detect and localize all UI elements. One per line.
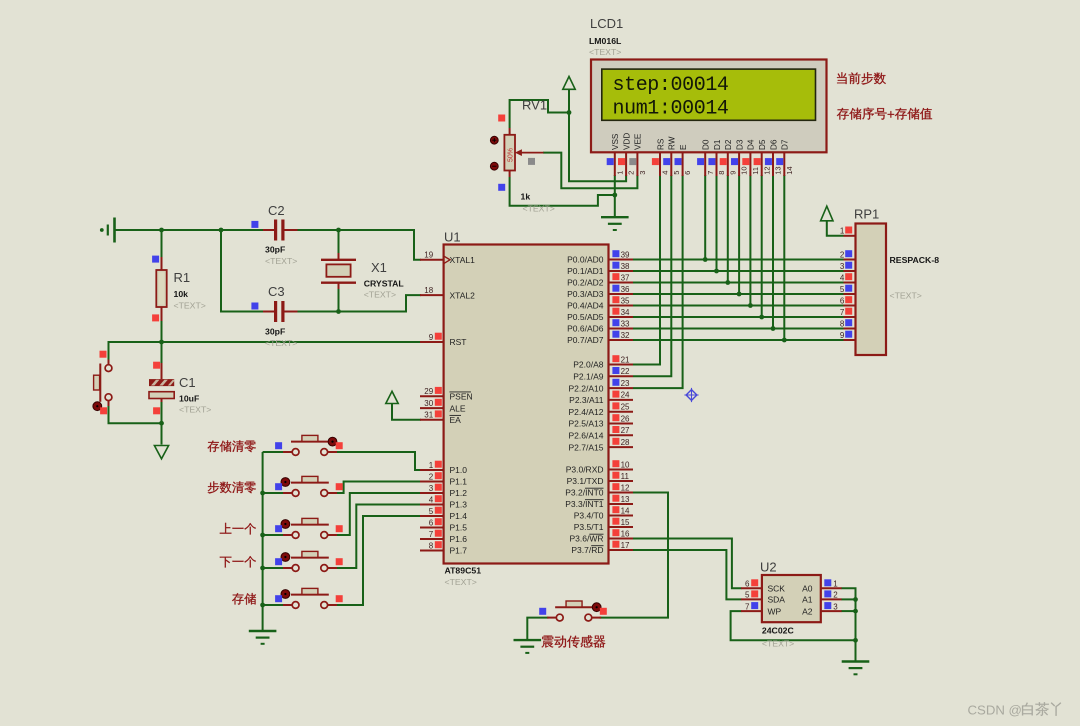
- svg-text:P1.1: P1.1: [450, 477, 468, 487]
- node RST-R1 junction: [159, 340, 164, 345]
- ground below LCD: [601, 217, 629, 230]
- svg-text:X1: X1: [371, 260, 387, 275]
- LCD pin 9 D2: [720, 139, 738, 176]
- svg-text:P0.4/AD4: P0.4/AD4: [567, 301, 604, 311]
- RP1 pin 2: [840, 250, 856, 259]
- U1 pin 21 P2.0/A8: [573, 355, 633, 370]
- svg-text:5: 5: [840, 285, 845, 294]
- svg-text:P0.5/AD5: P0.5/AD5: [567, 312, 604, 322]
- svg-text:A0: A0: [802, 584, 813, 594]
- svg-text:5: 5: [672, 171, 681, 175]
- U1 pin 26 P2.5/A13: [569, 414, 633, 429]
- U2 pin 7 WP: [741, 602, 782, 616]
- svg-text:A1: A1: [802, 595, 813, 605]
- svg-text:7: 7: [745, 602, 750, 611]
- U1 pin 34 P0.5/AD5: [567, 308, 633, 323]
- LCD pin 14 D7: [776, 139, 794, 176]
- wire button3 to P1.2: [337, 493, 421, 535]
- wire EA to power arrow: [392, 404, 421, 420]
- svg-text:P2.3/A11: P2.3/A11: [569, 395, 604, 405]
- svg-text:RW: RW: [668, 136, 677, 150]
- svg-text:P3.0/RXD: P3.0/RXD: [566, 465, 604, 475]
- wire R1 bottom to RST rail: [161, 321, 163, 342]
- svg-text:VDD: VDD: [622, 133, 631, 150]
- node U2 ground junction: [853, 638, 858, 643]
- svg-text:2: 2: [627, 171, 636, 175]
- U1 pin 28 P2.7/A15: [569, 438, 633, 453]
- wire LCD RS to P2.0: [633, 175, 660, 365]
- svg-text:36: 36: [621, 285, 630, 294]
- ground arrow below C1: [154, 446, 168, 459]
- RP1 pin 9: [840, 331, 856, 340]
- wire X1 bottom stub: [338, 289, 340, 312]
- svg-text:25: 25: [621, 403, 630, 412]
- svg-text:C3: C3: [268, 284, 285, 299]
- svg-text:24: 24: [621, 391, 630, 400]
- svg-text:50%: 50%: [508, 148, 515, 162]
- svg-text:VEE: VEE: [634, 133, 643, 150]
- pushbutton store-clear: [275, 435, 343, 455]
- svg-text:RP1: RP1: [854, 207, 879, 222]
- svg-text:22: 22: [621, 367, 630, 376]
- pushbutton next: [275, 551, 343, 571]
- node button bus row5: [260, 603, 265, 608]
- svg-text:1: 1: [429, 461, 434, 470]
- LCD pin 10 D3: [731, 139, 749, 176]
- svg-text:12: 12: [762, 166, 771, 174]
- RP1 pin 6: [840, 296, 856, 305]
- svg-text:8: 8: [429, 541, 434, 550]
- U1 pin 36 P0.3/AD3: [567, 285, 633, 300]
- svg-text:P1.3: P1.3: [450, 500, 468, 510]
- wire LCD D6 to P0.6: [772, 175, 774, 329]
- U1 pin 3 P1.2: [420, 484, 467, 499]
- wire RP1 pin1 to power arrow: [827, 221, 844, 236]
- svg-text:D2: D2: [724, 139, 733, 150]
- wire button bus vertical: [262, 452, 264, 631]
- svg-text:39: 39: [621, 250, 630, 259]
- svg-text:2: 2: [840, 250, 845, 259]
- svg-text:P0.0/AD0: P0.0/AD0: [567, 255, 604, 265]
- svg-text:7: 7: [706, 171, 715, 175]
- wire button1 to P1.0: [337, 452, 421, 470]
- svg-text:23: 23: [621, 379, 630, 388]
- wire VDD power rail vertical: [569, 89, 626, 181]
- svg-text:3: 3: [638, 171, 647, 175]
- U1 pin 31 EA: [420, 410, 461, 425]
- pushbutton reset: [93, 351, 112, 415]
- origin marker: [684, 388, 698, 402]
- U2 pin 6 SCK: [741, 579, 785, 593]
- node D1-P0.1 junction: [714, 269, 719, 274]
- svg-text:30pF: 30pF: [265, 327, 285, 337]
- RP1 pin 5: [840, 285, 856, 294]
- svg-text:<TEXT>: <TEXT>: [762, 639, 794, 649]
- svg-text:P2.0/A8: P2.0/A8: [573, 360, 604, 370]
- svg-text:14: 14: [621, 506, 630, 515]
- svg-text:30: 30: [424, 399, 433, 408]
- svg-text:P1.5: P1.5: [450, 523, 468, 533]
- svg-text:12: 12: [621, 483, 630, 492]
- svg-text:P3.5/T1: P3.5/T1: [574, 522, 604, 532]
- svg-text:7: 7: [429, 530, 434, 539]
- wire LCD E to P2.2: [633, 175, 683, 388]
- svg-text:D0: D0: [702, 139, 711, 150]
- U1 pin 23 P2.2/A10: [569, 379, 633, 394]
- U1 pin 37 P0.2/AD2: [567, 273, 633, 288]
- U1 pin 17 P3.7/RD: [571, 541, 633, 556]
- svg-text:10k: 10k: [174, 289, 189, 299]
- node C3-X1 junction: [336, 309, 341, 314]
- svg-text:R1: R1: [174, 270, 191, 285]
- pushbutton step-clear: [275, 476, 343, 496]
- wire P0.5 bus to RP1: [633, 316, 844, 318]
- wire button4 to P1.3: [337, 505, 421, 569]
- label current-step-count: [837, 72, 886, 84]
- svg-text:14: 14: [785, 166, 794, 174]
- svg-text:XTAL2: XTAL2: [450, 290, 476, 300]
- RP1 pin 1: [840, 227, 856, 236]
- svg-text:2: 2: [833, 591, 838, 600]
- svg-text:13: 13: [774, 166, 783, 174]
- svg-text:3: 3: [840, 262, 845, 271]
- U1 pin 1 P1.0: [420, 461, 467, 476]
- LCD pin 7 D0: [697, 139, 715, 176]
- node D7-P0.7 junction: [782, 338, 787, 343]
- RP1 pin 7: [840, 308, 856, 317]
- svg-text:1k: 1k: [521, 192, 531, 202]
- U1 pin 14 P3.4/T0: [574, 506, 633, 521]
- wire button row feed: [263, 534, 284, 536]
- svg-text:32: 32: [621, 331, 630, 340]
- svg-text:5: 5: [745, 591, 750, 600]
- svg-text:10: 10: [621, 460, 630, 469]
- label store-clear: [207, 440, 255, 452]
- svg-text:5: 5: [429, 507, 434, 516]
- svg-text:P3.2/INT0: P3.2/INT0: [565, 488, 604, 498]
- U2 pin 3 A2: [802, 602, 842, 616]
- svg-text:P2.2/A10: P2.2/A10: [569, 383, 604, 393]
- svg-text:step:00014: step:00014: [613, 74, 729, 97]
- svg-text:19: 19: [424, 251, 433, 260]
- svg-text:<TEXT>: <TEXT>: [445, 577, 477, 587]
- U1 pin 39 P0.0/AD0: [567, 250, 633, 265]
- svg-text:VSS: VSS: [611, 133, 620, 150]
- label vibration-sensor: [541, 635, 605, 648]
- svg-text:8: 8: [840, 319, 845, 328]
- svg-text:<TEXT>: <TEXT>: [179, 405, 211, 415]
- LCD pin 4 RS: [652, 138, 670, 176]
- wire P0.1 bus to RP1: [633, 270, 844, 272]
- wire vibration button to ground: [527, 618, 548, 640]
- U2 pin 2 A1: [802, 590, 842, 604]
- U2 pin 5 SDA: [741, 590, 785, 604]
- U1 pin 29 PSEN: [420, 387, 473, 402]
- wire LCD RW to P2.1: [633, 175, 671, 376]
- svg-text:C1: C1: [179, 375, 196, 390]
- U1 pin 11 P3.1/TXD: [567, 472, 633, 487]
- LCD pin 1 VSS: [607, 133, 625, 176]
- node D0-P0.0 junction: [703, 257, 708, 262]
- svg-text:P1.4: P1.4: [450, 511, 468, 521]
- LCD LCD1 LM016L: [589, 16, 827, 176]
- node D5-P0.5 junction: [759, 315, 764, 320]
- MCU U1 AT89C51: [444, 230, 609, 588]
- U1 pin 35 P0.4/AD4: [567, 296, 633, 311]
- svg-text:6: 6: [745, 580, 750, 589]
- svg-text:1: 1: [840, 227, 845, 236]
- LCD screen: [602, 69, 816, 120]
- capacitor C2: [251, 203, 297, 266]
- svg-text:11: 11: [621, 472, 630, 481]
- node VDD rail junction: [567, 110, 572, 115]
- svg-text:13: 13: [621, 495, 630, 504]
- node VCC-X1 junction: [336, 228, 341, 233]
- EEPROM U2 24C02C: [760, 560, 821, 649]
- svg-text:SDA: SDA: [768, 595, 786, 605]
- wire LCD D1 to P0.1: [716, 175, 718, 271]
- wire LCD D3 to P0.3: [738, 175, 740, 294]
- svg-text:10: 10: [740, 166, 749, 174]
- wire C1 top branch: [161, 342, 163, 363]
- wire C1 bottom branch: [161, 402, 163, 423]
- node VSS junction: [612, 193, 617, 198]
- crystal X1: [321, 253, 404, 300]
- watermark name: [1022, 702, 1061, 716]
- U1 pin 5 P1.4: [420, 507, 467, 522]
- node D2-P0.2 junction: [725, 280, 730, 285]
- svg-text:P1.6: P1.6: [450, 534, 468, 544]
- svg-text:29: 29: [424, 387, 433, 396]
- svg-text:P0.1/AD1: P0.1/AD1: [567, 266, 604, 276]
- svg-text:D4: D4: [747, 139, 756, 150]
- svg-text:P2.1/A9: P2.1/A9: [573, 372, 604, 382]
- U1 pin 2 P1.1: [420, 472, 467, 487]
- svg-text:34: 34: [621, 308, 630, 317]
- node D4-P0.4 junction: [748, 303, 753, 308]
- svg-text:30pF: 30pF: [265, 245, 285, 255]
- svg-text:num1:00014: num1:00014: [613, 98, 729, 121]
- svg-text:35: 35: [621, 296, 630, 305]
- wire button row feed: [263, 492, 284, 494]
- node VCC-C3 junction: [219, 228, 224, 233]
- svg-text:U2: U2: [760, 560, 777, 575]
- LCD pin 8 D1: [708, 139, 726, 176]
- wire P0.3 bus to RP1: [633, 293, 844, 295]
- svg-text:21: 21: [621, 355, 630, 364]
- LCD pin 5 RW: [663, 136, 681, 176]
- svg-text:<TEXT>: <TEXT>: [890, 291, 922, 301]
- svg-text:38: 38: [621, 262, 630, 271]
- resistor R1: [152, 256, 206, 322]
- svg-text:<TEXT>: <TEXT>: [174, 301, 206, 311]
- svg-text:P3.6/WR: P3.6/WR: [569, 534, 603, 544]
- svg-text:D5: D5: [758, 139, 767, 150]
- U1 pin 33 P0.6/AD6: [567, 319, 633, 334]
- node button bus row3: [260, 533, 265, 538]
- svg-text:27: 27: [621, 426, 630, 435]
- svg-text:3: 3: [833, 602, 838, 611]
- svg-text:7: 7: [840, 308, 845, 317]
- power terminal left: [100, 218, 115, 243]
- svg-text:P0.7/AD7: P0.7/AD7: [567, 335, 604, 345]
- wire reset button to bottom rail: [109, 401, 162, 445]
- svg-text:18: 18: [424, 286, 433, 295]
- wire U2 A0-A2 to ground: [841, 588, 855, 661]
- svg-text:P0.2/AD2: P0.2/AD2: [567, 278, 604, 288]
- svg-text:<TEXT>: <TEXT>: [523, 204, 555, 214]
- svg-text:8: 8: [717, 171, 726, 175]
- pushbutton store: [275, 588, 343, 608]
- wire button5 to P1.4: [337, 516, 421, 605]
- label storage-index+value: [837, 107, 932, 119]
- svg-text:4: 4: [661, 171, 670, 175]
- label store: [232, 593, 256, 605]
- svg-text:P2.4/A12: P2.4/A12: [569, 407, 604, 417]
- capacitor C1: [149, 362, 211, 415]
- wire P0.6 bus to RP1: [633, 328, 844, 330]
- wire button2 to P1.1: [337, 482, 421, 494]
- RP1 pin 3: [840, 262, 856, 271]
- power arrow EA: [386, 391, 398, 403]
- ground below U2: [842, 662, 870, 675]
- svg-text:4: 4: [429, 495, 434, 504]
- svg-text:CSDN @: CSDN @: [968, 702, 1022, 717]
- svg-text:A2: A2: [802, 606, 813, 616]
- wire VCC rail to XTAL1: [298, 230, 422, 260]
- svg-text:D6: D6: [769, 139, 778, 150]
- power arrow VDD: [563, 77, 575, 90]
- svg-text:P0.3/AD3: P0.3/AD3: [567, 289, 604, 299]
- svg-text:P2.6/A14: P2.6/A14: [569, 431, 604, 441]
- wire button row feed: [263, 604, 284, 606]
- label next: [220, 556, 256, 567]
- wire LCD D7 to P0.7: [783, 175, 785, 340]
- LCD pin 6 E: [675, 144, 693, 176]
- svg-text:1: 1: [833, 580, 838, 589]
- LCD pin 13 D6: [765, 139, 783, 176]
- U1 pin 4 P1.3: [420, 495, 467, 510]
- svg-text:RST: RST: [450, 337, 467, 347]
- svg-text:D1: D1: [713, 139, 722, 150]
- svg-text:<TEXT>: <TEXT>: [265, 256, 297, 266]
- svg-text:RV1: RV1: [522, 98, 547, 113]
- svg-text:4: 4: [840, 273, 845, 282]
- svg-text:26: 26: [621, 414, 630, 423]
- wire C3 to XTAL2: [298, 295, 422, 311]
- pushbutton vibration sensor: [539, 601, 607, 621]
- LCD pin 12 D5: [754, 139, 772, 176]
- wire LCD D4 to P0.4: [749, 175, 751, 306]
- svg-text:9: 9: [429, 333, 434, 342]
- svg-text:16: 16: [621, 529, 630, 538]
- wire button row feed: [263, 451, 284, 453]
- wire LCD D5 to P0.5: [761, 175, 763, 317]
- svg-text:<TEXT>: <TEXT>: [364, 290, 396, 300]
- wire VCC top rail: [115, 229, 264, 231]
- RP1 pin 8: [840, 319, 856, 328]
- wire P3.2/INT0 to vibration button: [600, 493, 669, 618]
- svg-text:SCK: SCK: [768, 584, 786, 594]
- U1 pin 13 P3.3/INT1: [565, 495, 633, 510]
- wire C3 branch vertical: [221, 230, 263, 312]
- svg-text:33: 33: [621, 319, 630, 328]
- U1 pin 27 P2.6/A14: [569, 426, 633, 441]
- wire button row feed: [263, 567, 284, 569]
- svg-text:WP: WP: [768, 606, 782, 616]
- svg-text:37: 37: [621, 273, 630, 282]
- U1 pin 22 P2.1/A9: [573, 367, 633, 382]
- svg-text:RESPACK-8: RESPACK-8: [890, 255, 940, 265]
- U1 pin 18 XTAL2: [420, 286, 475, 300]
- wire LCD D0 to P0.0: [704, 175, 706, 260]
- svg-text:3: 3: [429, 484, 434, 493]
- ground below buttons: [249, 631, 277, 644]
- node D6-P0.6 junction: [771, 326, 776, 331]
- svg-text:31: 31: [424, 411, 433, 420]
- potentiometer RV1: [490, 98, 554, 214]
- svg-text:CRYSTAL: CRYSTAL: [364, 279, 405, 289]
- svg-text:10uF: 10uF: [179, 394, 199, 404]
- svg-text:P2.5/A13: P2.5/A13: [569, 419, 604, 429]
- pushbutton previous: [275, 518, 343, 538]
- svg-text:P3.1/TXD: P3.1/TXD: [567, 476, 604, 486]
- svg-text:24C02C: 24C02C: [762, 626, 795, 636]
- svg-text:6: 6: [429, 518, 434, 527]
- svg-text:P1.7: P1.7: [450, 546, 468, 556]
- wire RV1 wiper to VEE: [543, 153, 637, 189]
- power arrow RP1: [821, 206, 833, 221]
- wire P0.7 bus to RP1: [633, 339, 844, 341]
- svg-text:D3: D3: [735, 139, 744, 150]
- svg-text:P3.4/T0: P3.4/T0: [574, 511, 604, 521]
- svg-text:AT89C51: AT89C51: [445, 566, 482, 576]
- wire RV1 top to VDD rail: [510, 100, 569, 128]
- wire RST rail: [109, 342, 422, 364]
- LCD pin 11 D4: [742, 139, 760, 176]
- wire X1 top stub: [338, 230, 340, 253]
- wire P0.0 bus to RP1: [633, 259, 844, 261]
- svg-text:6: 6: [840, 296, 845, 305]
- svg-text:2: 2: [429, 472, 434, 481]
- svg-text:PSEN: PSEN: [450, 391, 473, 401]
- svg-text:28: 28: [621, 438, 630, 447]
- svg-text:15: 15: [621, 518, 630, 527]
- svg-text:P0.6/AD6: P0.6/AD6: [567, 324, 604, 334]
- LCD pin 3 VEE: [629, 133, 647, 176]
- wire U2 WP to ground rail: [731, 611, 856, 640]
- wire VSS to ground: [614, 175, 616, 216]
- svg-text:RS: RS: [656, 138, 665, 150]
- svg-text:P3.7/RD: P3.7/RD: [571, 545, 603, 555]
- resistor pack RP1 RESPACK-8: [854, 207, 939, 356]
- wire RV1 bottom to VSS ground: [510, 177, 615, 206]
- svg-text:P1.0: P1.0: [450, 465, 468, 475]
- label step-clear: [208, 481, 256, 493]
- svg-text:C2: C2: [268, 203, 285, 218]
- capacitor C3: [251, 284, 297, 348]
- svg-text:9: 9: [728, 171, 737, 175]
- U1 pin 7 P1.6: [420, 530, 467, 545]
- wire R1 top branch: [161, 230, 163, 257]
- svg-text:D7: D7: [781, 139, 790, 150]
- U1 pin 15 P3.5/T1: [574, 518, 633, 533]
- svg-text:LM016L: LM016L: [589, 36, 622, 46]
- U1 pin 38 P0.1/AD1: [567, 262, 633, 277]
- node button bus row4: [260, 566, 265, 571]
- U1 pin 9 RST: [420, 333, 467, 348]
- svg-text:<TEXT>: <TEXT>: [265, 338, 297, 348]
